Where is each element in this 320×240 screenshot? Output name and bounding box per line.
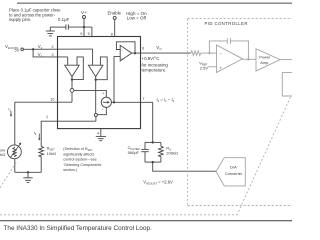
node: filter bottom	[152, 161, 154, 163]
wire: V1 down into A1 input	[67, 57, 69, 65]
svg-text:Converter: Converter	[225, 171, 243, 176]
capacitor (integrator feedback)	[227, 38, 230, 44]
svg-text:5: 5	[88, 32, 90, 36]
svg-text:200kΩ: 200kΩ	[166, 150, 178, 155]
wire: V_ADJUST line to D/A	[153, 162, 216, 171]
resistor R_G	[159, 142, 164, 162]
node: filter top	[152, 141, 154, 143]
current arrow I1	[10, 111, 12, 115]
svg-text:section.): section.)	[63, 168, 77, 172]
op-amp U1 chip box INA330	[58, 37, 141, 129]
wire: power amp output	[280, 59, 292, 61]
svg-text:The INA330 In Simplified Tempe: The INA330 In Simplified Temperature Con…	[4, 225, 153, 232]
svg-text:10kΩ: 10kΩ	[47, 151, 56, 156]
svg-text:2: 2	[52, 45, 54, 49]
wire: A3 output / pin 6	[132, 52, 191, 54]
ground (bypass cap)	[46, 27, 55, 36]
node: V+ junction	[83, 26, 85, 28]
Gm amp A1 (V1 input, left triangle)	[65, 65, 80, 76]
op-amp A3 output buffer	[120, 45, 132, 61]
D/A converter block	[216, 158, 245, 186]
svg-text:VO: VO	[156, 45, 162, 51]
wire: thermistor / R_SET ground rail	[15, 171, 41, 173]
svg-text:Enable: Enable	[107, 11, 121, 16]
svg-text:8: 8	[111, 32, 113, 36]
svg-text:+: +	[102, 92, 104, 96]
wire: pin 10 to thermistor	[15, 101, 72, 103]
wire: right node down to pin 1 rail	[95, 116, 97, 121]
svg-text:4: 4	[97, 131, 99, 135]
wire: branch to pin 3	[33, 49, 68, 57]
V_EXCITE terminal	[21, 48, 24, 51]
svg-text:‘Selecting Components’: ‘Selecting Components’	[63, 163, 102, 167]
wire: V_EXCITE to pin 2	[24, 48, 93, 50]
node: left internal terminal (open)	[70, 89, 74, 93]
current source I2	[101, 97, 111, 107]
ground (chip pin 4)	[96, 129, 106, 141]
wire: left node down to pin 10	[71, 92, 73, 102]
wire: pin 1 to R_SET	[41, 121, 96, 146]
svg-text:VADJUST = +2.6V: VADJUST = +2.6V	[143, 179, 173, 185]
thermistor R_THERM	[7, 145, 21, 159]
resistor (PID input)	[191, 51, 201, 56]
thermal path dashed bottom	[0, 214, 237, 216]
node: A2 output junction	[95, 79, 97, 81]
wire: A1 feedback staple	[72, 57, 83, 80]
svg-text:7: 7	[142, 97, 144, 101]
power amplifier U3	[256, 49, 280, 71]
svg-text:control system—see: control system—see	[63, 158, 96, 162]
note: bypass capacitor placement text	[9, 8, 61, 22]
node: ground junction	[27, 171, 29, 173]
svg-text:6: 6	[142, 47, 144, 51]
svg-text:Amp.: Amp.	[260, 60, 269, 65]
ground (sensor network)	[23, 172, 32, 182]
svg-text:2.5V: 2.5V	[200, 65, 209, 70]
node: right internal terminal (open)	[94, 113, 97, 116]
svg-text:Low = Off: Low = Off	[127, 16, 147, 21]
note: output slope	[142, 56, 169, 72]
node: output sense junction	[113, 101, 115, 103]
wire: V2 down into A2 input	[92, 49, 94, 65]
node: integrator input	[208, 52, 210, 54]
svg-text:−: −	[102, 108, 104, 112]
op-amp U2 PID integrator	[217, 45, 243, 73]
wire: A2 output down	[95, 77, 97, 114]
capacitor C1 plates	[66, 24, 68, 29]
svg-text:10kΩ: 10kΩ	[0, 152, 5, 157]
node: A1 output junction	[71, 78, 73, 80]
wire: current source bottom lead	[97, 107, 106, 114]
Gm amp A2 (V2 input, right triangle)	[88, 65, 103, 76]
thermal path dashed line (TEC to loop)	[237, 97, 290, 215]
wire: V_REF to + input	[208, 66, 217, 68]
wire: filter top rail	[145, 141, 161, 143]
node: output/feedback junction	[247, 58, 249, 60]
svg-text:D/A: D/A	[230, 165, 237, 170]
wire: A3 feedback loop	[116, 42, 135, 53]
node: output junction	[134, 52, 136, 54]
current arrow I3	[38, 134, 40, 139]
page top rule	[17, 2, 292, 4]
wire: to PID op-amp	[201, 52, 217, 54]
PID controller dashed boundary	[188, 19, 292, 206]
svg-text:(Selection of RSET: (Selection of RSET	[63, 147, 93, 152]
wire: current source output to pin 7	[111, 101, 152, 103]
note: enable logic levels	[126, 11, 147, 21]
svg-text:I3: I3	[34, 130, 37, 136]
svg-text:I2 = I1 − I3: I2 = I1 − I3	[157, 97, 175, 103]
wire: Enable to pin 8	[114, 19, 116, 36]
wire: current source top lead	[74, 90, 106, 97]
wire: A1 output	[71, 77, 73, 89]
wire: V+ to pin 9	[83, 19, 85, 37]
svg-text:+0.9V/°C: +0.9V/°C	[142, 56, 160, 61]
wire: A2 feedback staple	[96, 57, 108, 80]
svg-text:0.1µF: 0.1µF	[58, 17, 70, 22]
page bottom rule	[0, 220, 292, 222]
svg-text:10: 10	[50, 98, 54, 102]
svg-text:temperature.: temperature.	[142, 67, 167, 72]
svg-text:5V: 5V	[14, 47, 19, 52]
thermal path dashed line (to thermistor)	[0, 163, 16, 188]
note: R_SET selection	[63, 147, 102, 172]
svg-text:9: 9	[80, 32, 82, 36]
svg-text:supply pins.: supply pins.	[9, 17, 31, 22]
TEC block (clipped at page edge)	[282, 73, 292, 96]
svg-text:PID CONTROLLER: PID CONTROLLER	[205, 21, 248, 26]
svg-text:1: 1	[46, 115, 48, 119]
svg-text:significantly affects: significantly affects	[63, 152, 94, 156]
svg-text:3: 3	[52, 53, 54, 57]
node: V_EXCITE split	[32, 48, 34, 50]
svg-text:560pF: 560pF	[128, 150, 140, 155]
wire: R_SET bottom	[40, 157, 42, 173]
wire: pin 7 down to filter network	[152, 102, 154, 142]
wire: thermistor bottom	[14, 159, 16, 173]
wire: integrator feedback loop	[209, 41, 248, 60]
wire: integrator output	[243, 58, 257, 60]
capacitor C_FILTER	[141, 142, 148, 162]
wire: down to thermistor	[14, 102, 16, 145]
wire: cap leads / V+ rail	[50, 27, 92, 36]
wire: A3 + input sense line	[114, 57, 120, 103]
wire: filter bottom rail	[145, 161, 161, 163]
svg-text:V+: V+	[81, 10, 87, 15]
resistor R_SET	[39, 146, 44, 157]
